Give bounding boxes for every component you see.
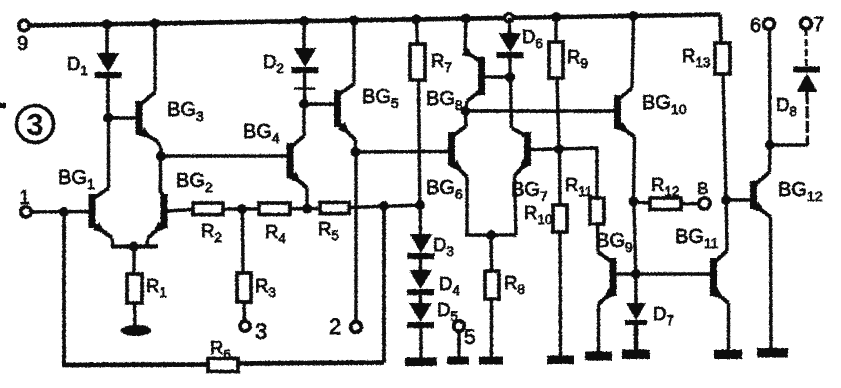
wire node to BG3 base: [108, 116, 137, 120]
label BG7: [511, 179, 548, 204]
wire left riser of feedback loop: [62, 212, 66, 365]
node D1-BG3 base: [103, 113, 113, 123]
resistor R10: [553, 205, 567, 232]
label D5: [437, 299, 458, 324]
svg-text:9: 9: [17, 33, 28, 55]
wire pin2 drop: [354, 152, 357, 322]
transistor BG7: [512, 128, 531, 176]
transistor BG4: [287, 136, 308, 188]
terminal pin 7: [801, 14, 825, 36]
wire BG9 emitter drop: [597, 304, 600, 352]
node D6-BG8 base-BG7 collector: [505, 72, 515, 82]
ground under D7: [622, 350, 650, 360]
terminal pin 1: [19, 187, 31, 217]
wire pin1 to BG1 base: [31, 210, 90, 214]
label BG4: [243, 121, 280, 146]
wire BG8 collector to node: [466, 101, 468, 111]
ground under D5: [405, 358, 437, 367]
wire emitter join: [111, 244, 158, 248]
svg-text:2: 2: [329, 314, 341, 339]
wire D7 cathode to ground: [634, 325, 639, 350]
wire BG1 emitter elbow: [112, 238, 113, 246]
node BG10 emitter / R12: [629, 197, 639, 207]
node rail-R7: [411, 14, 421, 24]
node R13-BG11-BG12base: [721, 195, 731, 205]
tick on D2 cathode wire: [294, 87, 315, 90]
resistor R7: [410, 44, 425, 80]
wire R8 bottom: [490, 299, 493, 357]
wire D3-D4: [419, 259, 422, 270]
wire node down to BG2 collector: [159, 156, 162, 189]
label R3: [255, 275, 276, 300]
svg-text:5: 5: [464, 326, 476, 349]
terminal-node rail D6: [505, 14, 513, 22]
wire BG2 emitter elbow: [147, 238, 148, 246]
wire BG6 emitter riser: [465, 177, 468, 235]
terminal pin 2: [329, 314, 361, 339]
label D8: [776, 94, 797, 119]
svg-text:6: 6: [750, 15, 761, 37]
wire top supply rail: [26, 15, 720, 26]
label D2: [263, 51, 284, 76]
wire bottom feedback right: [238, 363, 384, 364]
node BG9-BG11 base / D7: [631, 269, 641, 279]
label R2: [201, 220, 222, 245]
label BG11: [675, 226, 719, 251]
wire D2 cathode stub: [303, 73, 306, 104]
diode D2: [292, 48, 319, 73]
wire bias node to D3: [418, 205, 422, 234]
svg-text:3: 3: [26, 107, 43, 142]
transistor BG1: [89, 188, 113, 238]
terminal pin 3: [240, 319, 267, 344]
wire base node to R11 corner: [559, 148, 597, 198]
wire BG4 collector riser: [302, 104, 305, 136]
wire BG3 collector riser: [153, 23, 156, 92]
ground under R1: [121, 325, 152, 336]
wire D7 anode: [634, 274, 638, 303]
label BG10: [642, 92, 687, 117]
wire BG4 emitter riser: [305, 188, 308, 209]
node rail-D2: [299, 16, 309, 26]
label R1: [146, 275, 167, 300]
node emitters-R1: [129, 242, 139, 252]
ground under BG11: [714, 350, 742, 360]
wire R9 bottom: [557, 78, 559, 149]
wire down to BG7 collector: [511, 77, 512, 128]
ground under BG9: [585, 352, 612, 361]
wire R1 bottom: [133, 303, 137, 327]
wire R9 top: [554, 17, 557, 42]
resistor R3: [237, 273, 251, 302]
ground under R8: [479, 357, 503, 365]
node rail-D1: [102, 19, 112, 29]
svg-text:B: B: [697, 179, 708, 198]
node R3 tap: [237, 204, 247, 214]
wire R8 top: [489, 235, 493, 271]
wire R7 top: [417, 19, 418, 44]
wire BG6 collector riser: [464, 111, 468, 126]
label D6: [522, 26, 543, 51]
wire node to BG4 base: [161, 154, 289, 158]
wire D1 anode from rail: [105, 24, 109, 53]
resistor R2: [193, 203, 223, 215]
wire BG8 collector to BG10 base: [466, 109, 616, 113]
wire BG7 base: [531, 147, 560, 151]
wire node down to BG1 collector: [107, 118, 110, 188]
node rail-R9: [551, 12, 561, 22]
wire BG8 emitter riser: [465, 19, 468, 53]
wire D1 cathode to node: [106, 78, 110, 118]
wire stub scan mark: [0, 103, 6, 108]
wire to BG6 base: [356, 150, 450, 154]
wire D5 to ground: [419, 328, 422, 358]
label D4: [439, 273, 460, 298]
wire D4-D5: [419, 295, 422, 303]
wire emitter node down to base node: [634, 202, 636, 275]
resistor R1: [127, 274, 142, 303]
wire D6 anode: [508, 18, 511, 33]
transistor BG5: [334, 84, 356, 140]
wire pin5 to ground: [457, 331, 460, 357]
transistor BG2: [148, 188, 168, 238]
wire BG11 collector riser: [725, 200, 729, 251]
node BG3emitter-BG2collector: [156, 151, 166, 161]
wire BG10 emitter riser: [634, 137, 635, 201]
wire base node to BG11: [636, 272, 711, 276]
label D1: [67, 53, 88, 78]
node BG8 collector / BG10 base: [461, 106, 471, 116]
svg-text:1: 1: [19, 187, 30, 209]
wire R3 bottom: [242, 302, 246, 321]
label R6: [210, 337, 231, 362]
wire pin6 drop: [768, 29, 772, 145]
svg-text:3: 3: [255, 319, 267, 344]
terminal pin 9: [17, 20, 29, 55]
transistor BG8: [462, 47, 485, 101]
wire D6 cathode: [508, 58, 511, 77]
wire BG5 collector riser: [352, 20, 355, 84]
diode D4: [407, 270, 434, 295]
node BG5 emitter / pin2: [351, 147, 361, 157]
wire R12 left: [634, 202, 651, 203]
label R10: [524, 202, 552, 227]
wire D8 anode drop: [805, 92, 809, 145]
label R9: [567, 46, 588, 71]
label BG8: [426, 88, 463, 113]
wire pin7 to D8: [805, 29, 809, 66]
wire BG3 emitter to node: [158, 142, 161, 156]
label BG12: [778, 179, 823, 204]
terminal pin 6: [750, 15, 774, 37]
wire R1 top: [132, 246, 135, 274]
diode D6: [497, 33, 524, 58]
wire BG10 collector riser: [632, 16, 634, 88]
resistor R9: [549, 42, 563, 78]
transistor BG11: [710, 251, 729, 303]
wire BG9 base: [616, 272, 636, 276]
wire R5 to bias node: [349, 205, 420, 208]
node feedback R6 riser: [379, 201, 389, 211]
label D3: [433, 234, 454, 259]
diode D8: [797, 73, 818, 92]
diode D8 cathode bar: [794, 67, 821, 73]
label R8: [504, 272, 525, 297]
ground under pin 5: [447, 357, 469, 365]
diode D5: [407, 303, 434, 328]
wire BG12 collector riser: [768, 145, 772, 172]
wire R7 bottom: [419, 80, 420, 205]
node pin6-D8-BG12 collector: [765, 140, 775, 150]
label R5: [318, 218, 339, 243]
transistor BG6: [448, 126, 467, 177]
wire BG7 emitter riser: [515, 176, 517, 235]
transistor BG10: [614, 88, 635, 137]
terminal pin 5: [454, 321, 476, 349]
label R11: [565, 174, 592, 199]
diode D7: [625, 303, 647, 325]
wire R3 top: [241, 209, 245, 273]
label BG1: [58, 167, 95, 192]
svg-text:7: 7: [813, 14, 824, 36]
wire R11 bottom to BG9 collector: [596, 224, 600, 252]
label BG2: [176, 170, 213, 195]
diode D3: [408, 234, 435, 259]
resistor R12: [650, 198, 681, 210]
resistor R5: [320, 203, 349, 214]
node rail-BG8 emitter: [461, 14, 471, 24]
node R9-R10-BG7 base: [554, 144, 564, 154]
wire R12 right: [681, 202, 699, 205]
resistor R4: [259, 203, 290, 215]
label R13: [682, 45, 710, 70]
wire R4-R5 node: [290, 207, 320, 211]
diode D1: [95, 53, 122, 78]
ground under BG12: [757, 348, 788, 358]
label R7: [431, 50, 452, 75]
resistor R11: [590, 198, 604, 224]
label BG6: [426, 177, 463, 202]
wire right riser of feedback loop: [382, 206, 386, 363]
wire BG5 emitter riser: [354, 140, 357, 152]
wire R10 bottom: [558, 232, 562, 356]
wire BG12 emitter drop: [769, 217, 773, 348]
label D7: [653, 303, 674, 328]
wire node to BG5 base: [304, 102, 336, 106]
node BG4 emitter tap: [302, 204, 312, 214]
wire rail corner to R13: [720, 15, 721, 44]
label BG5: [362, 86, 399, 111]
label R4: [265, 221, 286, 246]
node rail-BG10: [629, 11, 639, 21]
resistor R6: [208, 359, 238, 372]
transistor BG3: [136, 92, 159, 142]
node pin1 junction: [59, 207, 69, 217]
ground under R10: [547, 356, 574, 365]
label R12: [651, 174, 679, 199]
wire bottom feedback left: [62, 362, 208, 367]
wire D8 to pin6 node: [770, 143, 808, 146]
node rail-BG3: [150, 18, 160, 28]
label BG3: [167, 99, 204, 124]
resistor R8: [485, 271, 499, 299]
transistor BG9: [598, 252, 617, 304]
wire BG11 emitter drop: [727, 303, 730, 350]
resistor R13: [715, 43, 730, 74]
node D2-BG5 base: [299, 99, 309, 109]
terminal pin B: [697, 179, 710, 209]
wire D2 anode: [302, 21, 306, 48]
wire emitter join BG6-BG7: [465, 233, 516, 237]
wire R13 bottom: [723, 74, 726, 200]
wire R2-R3 node: [223, 207, 259, 211]
wire R10 top: [558, 149, 562, 205]
wire BG2 base to R2: [167, 210, 193, 212]
transistor BG12: [750, 172, 771, 217]
node R8 tap: [486, 230, 496, 240]
wire BG8 base: [485, 75, 511, 79]
wire node to BG12 base: [726, 198, 751, 202]
label BG9: [596, 230, 633, 255]
node rail-BG5: [349, 15, 359, 25]
figure number circled 3: [17, 106, 54, 143]
node bias divider: [415, 200, 425, 210]
